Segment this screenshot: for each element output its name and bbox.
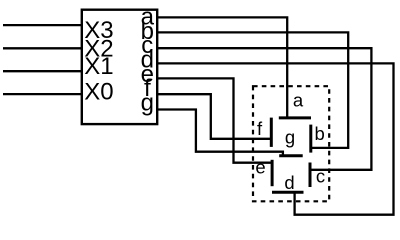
wire b	[157, 32, 348, 147]
segment e	[271, 160, 274, 186]
wire input X2	[3, 47, 82, 49]
wire c	[157, 48, 371, 170]
wire input X3	[3, 24, 82, 26]
wire a	[157, 17, 287, 118]
decoder box U1	[82, 10, 157, 124]
segment f	[270, 118, 273, 147]
segment d	[272, 191, 304, 194]
svg-text:c: c	[316, 166, 325, 187]
7-segment display dashed outline	[253, 86, 329, 201]
segment c	[309, 163, 312, 188]
svg-text:g: g	[141, 89, 154, 116]
svg-text:X1: X1	[84, 53, 113, 80]
svg-text:g: g	[285, 127, 295, 148]
svg-text:X0: X0	[84, 79, 113, 106]
svg-text:d: d	[284, 172, 294, 193]
wire g	[157, 110, 283, 156]
segment b	[309, 125, 312, 153]
segment a	[279, 116, 311, 119]
wire d	[157, 63, 393, 214]
svg-text:e: e	[255, 157, 265, 178]
wire f	[157, 94, 271, 139]
svg-text:f: f	[257, 118, 263, 139]
svg-text:b: b	[315, 123, 325, 144]
wire input X1	[3, 70, 82, 72]
segment g	[279, 154, 303, 157]
wire e	[157, 78, 272, 162]
wire input X0	[3, 93, 82, 95]
svg-text:a: a	[293, 90, 304, 111]
